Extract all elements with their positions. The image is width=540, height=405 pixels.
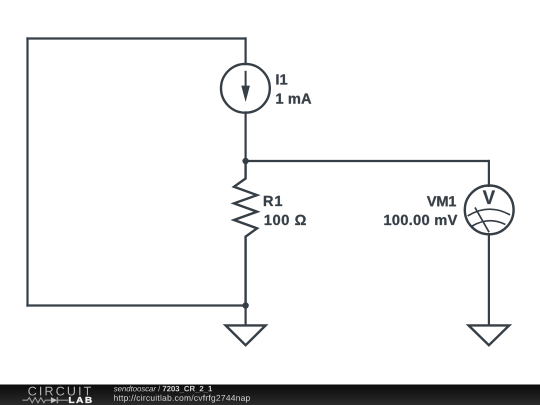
label I1 value 1 mA <box>276 94 311 104</box>
resistor R1 <box>234 161 257 306</box>
CircuitLab logo schematic line with resistor and diode <box>22 397 68 403</box>
label R1 value 100 ohm <box>265 215 306 225</box>
ground right symbol <box>469 325 510 345</box>
wire VM1 top lead <box>488 161 490 186</box>
current source I1 circle <box>221 64 270 113</box>
footer bar <box>0 385 540 405</box>
ground left lead <box>245 306 247 326</box>
footer credit line 2 url <box>114 395 250 403</box>
junction node A (I1 / R1 / VM1) <box>242 158 248 164</box>
wire I1 top lead <box>245 39 247 65</box>
ground left symbol <box>226 325 266 345</box>
CircuitLab logo text CIRCUIT <box>28 387 91 396</box>
current source I1 arrow <box>241 72 250 102</box>
junction node GND (R1 / wire / ground) <box>242 302 248 308</box>
label R1 designator <box>264 196 282 206</box>
label VM1 designator <box>427 196 456 206</box>
label I1 designator <box>276 74 287 84</box>
voltmeter VM1 letter V <box>483 191 495 205</box>
wire VM1 bottom lead <box>488 234 490 325</box>
CircuitLab logo text LAB <box>69 397 92 403</box>
voltmeter VM1 needle <box>475 208 488 231</box>
wire bottom-left horizontal <box>28 304 246 306</box>
footer credit line 1 <box>114 386 212 393</box>
voltmeter VM1 circle <box>465 186 514 235</box>
label VM1 value 100.00 mV <box>384 215 457 225</box>
wire I1 bottom lead <box>245 112 247 161</box>
wire left vertical <box>26 39 28 306</box>
wire top horizontal <box>28 37 246 39</box>
wire node A to VM1 <box>246 160 489 162</box>
voltmeter VM1 meter face arcs <box>468 209 509 226</box>
